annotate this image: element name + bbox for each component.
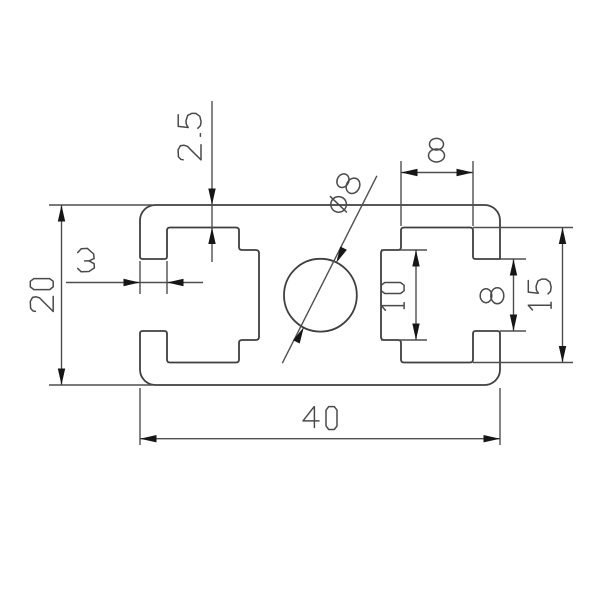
3 left arrow xyxy=(124,279,141,286)
dimension texts drawn as CAD stick glyphs xyxy=(30,113,551,429)
dim 20 dim line xyxy=(61,205,63,385)
10 top arrow xyxy=(412,250,419,267)
3 right arrow xyxy=(167,279,184,286)
text 3 xyxy=(78,248,95,271)
dia8 upper arrow xyxy=(336,247,347,263)
text 15 rotated xyxy=(528,279,551,310)
8 top left arrow xyxy=(401,169,418,176)
text 2.5 rotated xyxy=(178,113,201,160)
20 bottom arrow xyxy=(58,369,65,386)
dim 3 ext lines xyxy=(139,261,141,294)
center hole circle xyxy=(284,259,357,332)
8 top right arrow xyxy=(457,169,474,176)
text 20 rotated xyxy=(30,279,53,312)
dim 40 ext lines xyxy=(139,388,141,445)
8 right top arrow xyxy=(510,259,517,276)
arrowheads xyxy=(58,169,566,443)
40 right arrow xyxy=(484,435,501,442)
dia8 lower arrow xyxy=(293,327,304,343)
10 bottom arrow xyxy=(412,324,419,341)
dim 20 ext lines xyxy=(49,204,152,206)
dim 3 dim line xyxy=(66,282,203,284)
profile outline 40x20 extrusion xyxy=(140,205,500,385)
text dia8 rotated xyxy=(324,171,363,216)
2.5 top arrow xyxy=(208,189,215,206)
text 8 top xyxy=(429,138,445,162)
dim 10 dim line xyxy=(415,250,417,340)
dim 8 top ext lines xyxy=(400,161,402,226)
dim 8 top dim line xyxy=(401,172,473,174)
dim 40 dim line xyxy=(140,438,500,440)
dim 15 dim line xyxy=(562,228,564,363)
text 10 rotated xyxy=(381,283,404,311)
leader dia8 xyxy=(282,176,377,363)
15 top arrow xyxy=(559,228,566,245)
text 40 xyxy=(303,407,337,430)
thin dimension and extension lines xyxy=(49,101,573,445)
dim 10 ext lines xyxy=(381,249,427,251)
8 right bottom arrow xyxy=(510,315,517,332)
40 left arrow xyxy=(140,435,157,442)
dim 2.5 line xyxy=(211,101,213,262)
dim 8 right ext lines xyxy=(500,258,526,260)
dim 8 right dim line xyxy=(513,259,515,331)
dim 15 ext lines xyxy=(473,227,573,229)
text 8 right rotated xyxy=(480,288,504,304)
15 bottom arrow xyxy=(559,346,566,363)
20 top arrow xyxy=(58,205,65,222)
2.5 bottom arrow xyxy=(208,228,215,245)
